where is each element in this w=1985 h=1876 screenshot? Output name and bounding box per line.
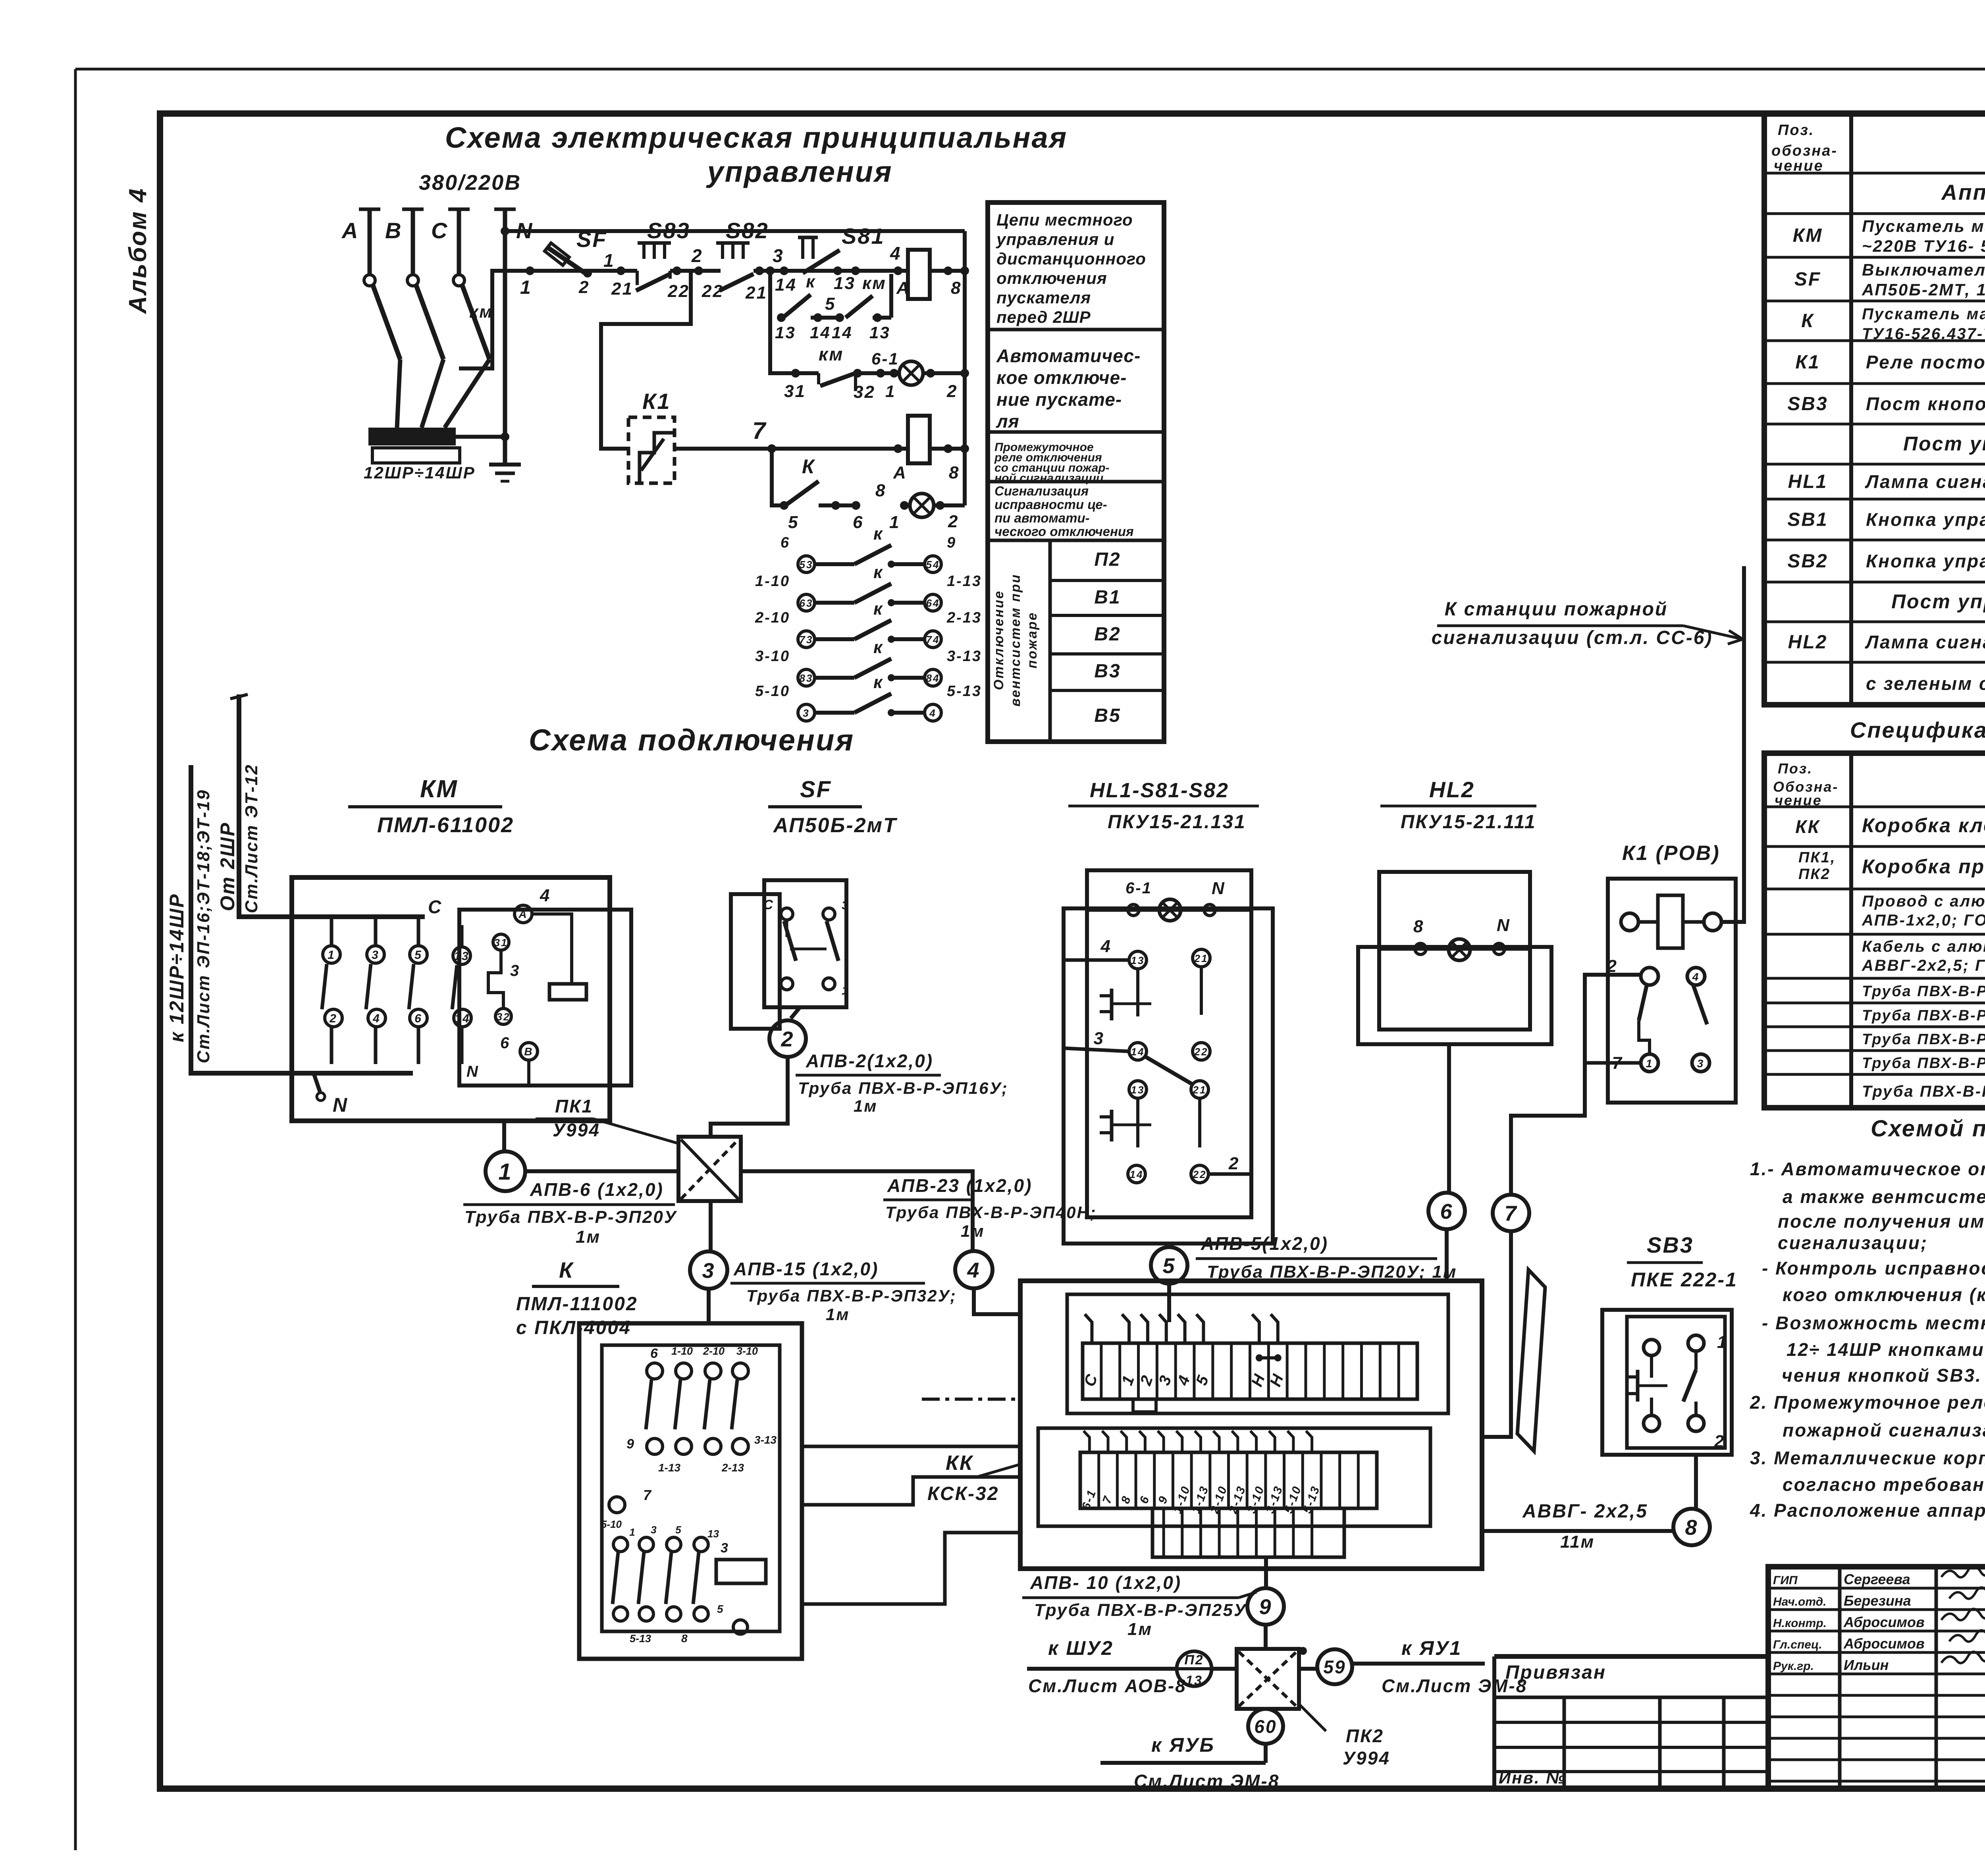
svg-text:Труба ПВХ-В-Р-ЭП32У;: Труба ПВХ-В-Р-ЭП32У; [746,1286,957,1305]
svg-text:6-1: 6-1 [871,349,899,368]
svg-text:Схема подключения: Схема подключения [529,723,854,757]
svg-text:КК: КК [1795,816,1820,837]
svg-text:Выключатель автоматический: Выключатель автоматический [1862,260,1985,279]
svg-text:5: 5 [825,294,836,314]
svg-text:чение: чение [1774,158,1824,174]
svg-text:6: 6 [414,1012,422,1025]
svg-text:Труба ПВХ-В-Р-ЭП16У, ТУ6- 19-2: Труба ПВХ-В-Р-ЭП16У, ТУ6- 19-215-83 [1862,983,1985,1000]
svg-text:8: 8 [1685,1515,1698,1539]
svg-text:К1: К1 [1795,352,1820,373]
svg-text:4: 4 [540,886,551,905]
svg-text:к: к [873,524,883,544]
svg-text:13: 13 [454,950,469,963]
svg-text:1: 1 [1646,1057,1654,1070]
svg-text:Кнопка управления КЕ011У3,: Кнопка управления КЕ011У3, исп. 2 [1866,509,1985,530]
svg-text:SB3: SB3 [1787,393,1828,415]
svg-text:Автоматичес-: Автоматичес- [996,345,1141,366]
svg-text:Поз.: Поз. [1778,760,1813,777]
svg-text:КСК-32: КСК-32 [927,1483,999,1504]
svg-text:21: 21 [1194,952,1208,964]
svg-text:А: А [893,463,907,482]
svg-text:- Возможность местного управ: - Возможность местного управления пускат… [1762,1313,1985,1333]
svg-text:13: 13 [707,1528,719,1540]
svg-text:В: В [385,218,402,243]
svg-text:8: 8 [875,481,886,500]
svg-text:Лампа сигнальная АС-220: Лампа сигнальная АС-220 [1865,471,1985,492]
svg-text:31: 31 [494,937,508,949]
svg-text:21: 21 [745,283,767,303]
svg-text:В5: В5 [1094,705,1121,726]
svg-text:ПК2: ПК2 [1798,866,1831,883]
svg-text:3: 3 [721,1541,729,1556]
svg-text:1: 1 [328,949,335,962]
svg-text:1-13: 1-13 [947,573,982,590]
svg-text:13: 13 [834,274,856,293]
svg-text:HL1: HL1 [1788,471,1828,492]
svg-text:А: А [341,218,359,243]
svg-text:1: 1 [603,250,615,271]
svg-text:5-10: 5-10 [601,1518,622,1530]
svg-text:2: 2 [691,245,703,266]
svg-text:Схема электрическая принципи: Схема электрическая принципиальная [445,121,1068,154]
svg-text:после получения импульса о: после получения импульса о пожаре со ста… [1778,1211,1985,1232]
svg-text:Труба ПВХ-В-Р-ЭП40Н, ТУ6- 19-: Труба ПВХ-В-Р-ЭП40Н, ТУ6- 19- 215- 83 [1862,1083,1985,1100]
svg-text:вентсистем при: вентсистем при [1008,573,1023,706]
svg-text:согласно требованиям ПУЭ.: согласно требованиям ПУЭ. [1783,1474,1985,1495]
svg-text:2: 2 [781,1027,794,1051]
svg-text:ной сигнализации: ной сигнализации [994,472,1103,485]
svg-text:2. Промежуточное реле К1(РОВ: 2. Промежуточное реле К1(РОВ) выбирается… [1750,1392,1985,1413]
svg-text:ГИП: ГИП [1773,1574,1798,1587]
svg-text:АВВГ- 2х2,5: АВВГ- 2х2,5 [1522,1501,1648,1522]
svg-text:2: 2 [1228,1154,1239,1173]
svg-text:Поз.: Поз. [1778,122,1815,139]
svg-text:Спецификация на монтажные: Спецификация на монтажные материалы [1850,717,1985,742]
svg-text:перед 2ШР: перед 2ШР [996,308,1091,326]
svg-text:Рук.гр.: Рук.гр. [1773,1660,1814,1673]
svg-text:8: 8 [949,463,960,482]
svg-text:Березина: Березина [1844,1593,1911,1609]
svg-text:Абросимов: Абросимов [1843,1614,1925,1630]
svg-text:2-10: 2-10 [703,1345,725,1357]
svg-text:В2: В2 [1094,624,1121,645]
svg-text:км: км [862,274,887,293]
svg-text:Инв. №: Инв. № [1499,1768,1566,1787]
svg-text:3-13: 3-13 [947,648,982,665]
svg-text:5: 5 [717,1603,725,1615]
svg-text:ПМЛ-611002: ПМЛ-611002 [377,813,514,837]
svg-text:а также вентсистем, питаемых: а также вентсистем, питаемых от 12ШР, 13… [1783,1186,1985,1207]
svg-text:7: 7 [1504,1201,1517,1225]
svg-text:П2: П2 [1094,549,1121,570]
svg-text:Абросимов: Абросимов [1843,1635,1925,1652]
svg-text:КК: КК [946,1452,973,1475]
svg-text:S83: S83 [647,218,690,243]
svg-text:SF: SF [1794,269,1821,290]
svg-text:2-13: 2-13 [721,1461,744,1474]
svg-text:6: 6 [781,534,790,551]
svg-text:5: 5 [788,513,799,532]
svg-text:13: 13 [1185,1673,1203,1688]
svg-text:2: 2 [946,382,958,401]
svg-text:ПК2: ПК2 [1346,1726,1384,1746]
svg-text:чения кнопкой SB3.: чения кнопкой SB3. [1782,1365,1982,1386]
svg-text:Отключение: Отключение [991,590,1006,690]
svg-text:Труба ПВХ-В-Р-ЭП20У, ТУ6- 19-: Труба ПВХ-В-Р-ЭП20У, ТУ6- 19- 215- 83 [1862,1007,1985,1024]
svg-text:исправности це-: исправности це- [994,497,1107,512]
svg-text:См.Лист ЭМ-8: См.Лист ЭМ-8 [1134,1771,1280,1791]
svg-text:АП50Б-2МТ, 1,6х3,5 , ТУ16-52: АП50Б-2МТ, 1,6х3,5 , ТУ16-522.139-78 [1862,280,1985,299]
svg-text:В3: В3 [1094,661,1121,682]
svg-text:Сергеева: Сергеева [1844,1571,1910,1587]
svg-text:6-1: 6-1 [1125,879,1152,897]
svg-text:Пускатель магнитный ПМЛ-6110: Пускатель магнитный ПМЛ-611002, [1862,217,1985,235]
svg-text:Ильин: Ильин [1844,1657,1889,1673]
svg-text:Коробка клеммная КСК-32: Коробка клеммная КСК-32 [1862,814,1985,837]
svg-text:К1 (РОВ): К1 (РОВ) [1622,842,1720,865]
svg-text:1-13: 1-13 [658,1461,680,1474]
svg-text:К: К [559,1257,574,1282]
svg-text:дистанционного: дистанционного [996,249,1146,268]
svg-text:Лампа сигнальная АС-220: Лампа сигнальная АС-220 [1865,632,1985,652]
svg-text:1: 1 [520,277,532,298]
svg-text:9: 9 [947,534,956,551]
svg-text:Провод с алюминиевой жилой: Провод с алюминиевой жилой [1862,893,1985,910]
svg-text:Пускатель магнитный ПМЛ-111002: Пускатель магнитный ПМЛ-111002, ~220В [1862,305,1985,323]
svg-text:Труба ПВХ-В-Р-ЭП25У, ТУ6- 19 -: Труба ПВХ-В-Р-ЭП25У, ТУ6- 19 - 215- 83 [1862,1031,1985,1048]
svg-text:3: 3 [372,949,380,962]
svg-text:54: 54 [926,559,940,571]
svg-text:64: 64 [926,597,940,609]
svg-text:13: 13 [869,323,890,342]
svg-text:Н.контр.: Н.контр. [1773,1617,1827,1630]
svg-text:С: С [763,897,774,912]
svg-text:3-10: 3-10 [755,648,790,665]
svg-text:1м: 1м [826,1305,850,1324]
svg-text:1: 1 [629,1526,636,1538]
svg-text:чение: чение [1775,792,1822,808]
svg-text:КМ: КМ [1793,225,1823,246]
svg-text:9: 9 [1259,1595,1272,1619]
svg-text:управления и: управления и [996,230,1114,249]
svg-text:HL2: HL2 [1429,777,1475,802]
svg-text:пускателя: пускателя [996,288,1091,307]
svg-text:ПК1,: ПК1, [1798,849,1836,866]
svg-text:к ЯУБ: к ЯУБ [1151,1734,1215,1756]
svg-text:ПКЕ 222-1: ПКЕ 222-1 [1631,1269,1738,1291]
svg-text:22: 22 [667,281,690,301]
svg-text:12ШР÷14ШР: 12ШР÷14ШР [364,463,476,482]
svg-text:Коробка протяжная У994: Коробка протяжная У994 [1862,856,1985,878]
svg-text:~220В ТУ16- 526.437-78: ~220В ТУ16- 526.437-78 [1862,237,1985,255]
svg-text:4: 4 [1100,937,1112,956]
svg-text:КМ: КМ [420,775,458,803]
svg-text:3: 3 [803,707,809,719]
svg-text:См.Лист АОВ-8: См.Лист АОВ-8 [1028,1675,1187,1696]
svg-text:HL1-S81-S82: HL1-S81-S82 [1090,779,1229,802]
svg-text:пожаре: пожаре [1025,611,1040,668]
svg-text:Цепи местного: Цепи местного [996,210,1133,229]
svg-text:1: 1 [498,1159,512,1185]
svg-text:1: 1 [842,984,850,997]
svg-text:7: 7 [643,1487,652,1503]
svg-text:Сигнализация: Сигнализация [994,484,1089,498]
svg-text:3: 3 [1094,1029,1104,1048]
svg-text:1: 1 [889,513,900,532]
svg-text:21: 21 [1193,1084,1207,1096]
svg-text:к 12ШР÷14ШР: к 12ШР÷14ШР [166,893,188,1042]
svg-text:14: 14 [1130,1168,1144,1180]
svg-text:АП50Б-2мТ: АП50Б-2мТ [773,814,898,837]
svg-text:Труба ПВХ-В-Р-ЭП25У: Труба ПВХ-В-Р-ЭП25У [1034,1600,1247,1620]
svg-text:2-13: 2-13 [946,609,982,626]
svg-text:АВВГ-2х2,5; ГОСТ 16442-80*: АВВГ-2х2,5; ГОСТ 16442-80* [1862,957,1985,974]
svg-text:км: км [819,344,844,364]
svg-text:1м: 1м [1127,1620,1152,1639]
svg-text:А: А [518,908,528,920]
svg-text:кое отключе-: кое отключе- [996,367,1127,388]
svg-text:Труба ПВХ-В-Р-ЭП20У: Труба ПВХ-В-Р-ЭП20У [464,1207,677,1227]
svg-text:У994: У994 [553,1120,600,1140]
svg-text:S81: S81 [842,224,885,249]
svg-text:6: 6 [500,1034,510,1052]
svg-text:с ПКЛ-4004: с ПКЛ-4004 [516,1317,631,1338]
svg-text:К станции пожарной: К станции пожарной [1445,599,1668,620]
svg-text:к ЯУ1: к ЯУ1 [1401,1637,1462,1659]
svg-text:Нач.отд.: Нач.отд. [1773,1595,1827,1608]
svg-text:13: 13 [1131,954,1145,966]
svg-text:32: 32 [854,382,875,402]
svg-text:4: 4 [967,1258,980,1282]
svg-text:ля: ля [996,411,1019,432]
svg-text:3: 3 [773,245,784,266]
svg-text:14: 14 [832,323,853,342]
svg-text:сигнализации (ст.л. СС-6): сигнализации (ст.л. СС-6) [1432,627,1713,648]
svg-text:Альбом 4: Альбом 4 [124,187,152,314]
svg-text:1-10: 1-10 [671,1345,693,1357]
svg-text:2-10: 2-10 [755,609,790,626]
svg-text:S82: S82 [726,218,769,243]
svg-text:Ст.Лист ЭП-16;ЭТ-18;ЭТ-19: Ст.Лист ЭП-16;ЭТ-18;ЭТ-19 [194,789,213,1063]
svg-text:Привязан: Привязан [1505,1662,1606,1683]
svg-text:5-13: 5-13 [947,683,982,700]
svg-text:13: 13 [1131,1084,1145,1096]
svg-text:5: 5 [1162,1254,1176,1278]
svg-text:4: 4 [890,243,902,264]
svg-text:с зеленым светофильтром: с зеленым светофильтром [1866,673,1985,694]
svg-text:60: 60 [1254,1716,1277,1737]
svg-text:32: 32 [497,1011,511,1023]
svg-text:От 2ШР: От 2ШР [216,822,239,911]
svg-text:ТУ16-526.437-78 с приставкой: ТУ16-526.437-78 с приставкой ПКЛ-4004 [1862,325,1985,343]
svg-text:К1: К1 [642,389,671,414]
svg-text:Кабель с алюминиевыми жилами: Кабель с алюминиевыми жилами [1862,938,1985,955]
svg-text:74: 74 [926,634,940,646]
svg-text:ПК1: ПК1 [555,1096,593,1116]
svg-text:Пост управления ПКУ15-21.131: Пост управления ПКУ15-21.131 [1903,433,1985,455]
svg-text:к: к [873,563,883,582]
svg-text:3: 3 [510,962,520,979]
svg-text:4: 4 [929,707,936,719]
svg-text:5: 5 [675,1524,682,1536]
svg-text:2: 2 [329,1012,337,1025]
svg-text:14: 14 [810,323,831,342]
svg-text:SF: SF [576,227,607,252]
svg-text:SB1: SB1 [1787,509,1828,530]
svg-text:ПКУ15-21.131: ПКУ15-21.131 [1108,812,1246,833]
svg-text:Пост управления ПКУ 15 - 21: Пост управления ПКУ 15 - 21. 111 [1891,590,1985,613]
svg-text:пи автомати-: пи автомати- [994,511,1090,525]
svg-text:8: 8 [951,278,962,298]
svg-text:к: к [806,272,816,291]
svg-text:13: 13 [775,323,796,342]
svg-text:к: к [873,599,883,619]
svg-text:53: 53 [800,559,813,571]
svg-text:3: 3 [702,1259,715,1282]
svg-text:У994: У994 [1343,1748,1390,1768]
svg-text:SB2: SB2 [1787,551,1828,572]
svg-text:31: 31 [784,382,806,401]
svg-text:8: 8 [1413,917,1424,936]
svg-text:Реле постоянного тока 24В: Реле постоянного тока 24В [1866,352,1985,372]
svg-text:84: 84 [926,672,940,684]
svg-text:4. Расположение аппаратуры с: 4. Расположение аппаратуры см. на листе … [1750,1500,1985,1521]
svg-text:59: 59 [1323,1657,1346,1677]
svg-text:АПВ-23 (1х2,0): АПВ-23 (1х2,0) [887,1175,1032,1196]
svg-text:АПВ-2(1х2,0): АПВ-2(1х2,0) [806,1051,933,1071]
svg-text:К: К [1801,310,1814,332]
svg-text:N: N [1212,879,1226,898]
svg-text:ческого отключения: ческого отключения [994,524,1134,539]
svg-text:6: 6 [1440,1199,1453,1223]
svg-text:5: 5 [414,949,422,962]
svg-text:5-10: 5-10 [755,683,790,700]
svg-text:9: 9 [626,1436,635,1452]
svg-text:2: 2 [1607,956,1618,976]
svg-text:3-13: 3-13 [754,1434,777,1446]
svg-text:пожарной сигнализации (см.: пожарной сигнализации (см. лист СС-5). [1783,1420,1985,1440]
svg-text:7: 7 [752,417,767,444]
svg-text:отключения: отключения [996,269,1107,287]
svg-text:Труба ПВХ-В-Р-ЭП32У, ТУ6- 19-: Труба ПВХ-В-Р-ЭП32У, ТУ6- 19- 215- 83 [1862,1055,1985,1072]
svg-text:73: 73 [800,634,813,646]
svg-text:14: 14 [775,275,797,295]
svg-text:АПВ- 10 (1х2,0): АПВ- 10 (1х2,0) [1030,1572,1181,1593]
svg-text:3: 3 [651,1524,657,1536]
svg-text:Труба ПВХ-В-Р-ЭП16У;: Труба ПВХ-В-Р-ЭП16У; [798,1079,1008,1097]
svg-text:63: 63 [800,597,813,609]
svg-text:Гл.спец.: Гл.спец. [1773,1638,1822,1651]
svg-text:22: 22 [1194,1046,1208,1058]
svg-text:1: 1 [885,382,896,401]
svg-text:3. Металлические корпуса эле: 3. Металлические корпуса электроаппарату… [1750,1448,1985,1468]
svg-text:1м: 1м [854,1097,877,1115]
svg-text:1.- Автоматическое отключение: 1.- Автоматическое отключение вентсистем… [1750,1159,1985,1179]
svg-text:кого отключения (кабель ⑦).: кого отключения (кабель ⑦). [1783,1284,1985,1305]
svg-text:14: 14 [1131,1046,1145,1058]
svg-text:ние пускате-: ние пускате- [996,389,1122,410]
svg-text:1м: 1м [961,1222,985,1240]
svg-text:АПВ-15 (1х2,0): АПВ-15 (1х2,0) [733,1259,879,1279]
svg-text:Схемой предусмотрено:: Схемой предусмотрено: [1871,1116,1985,1141]
svg-text:С: С [431,218,448,243]
svg-text:К: К [802,455,815,478]
svg-text:обозна-: обозна- [1771,143,1838,159]
svg-text:ПКУ15-21.111: ПКУ15-21.111 [1401,812,1536,833]
svg-text:Аппаратура по месту: Аппаратура по месту [1941,180,1985,204]
svg-text:Ст.Лист ЭТ-12: Ст.Лист ЭТ-12 [242,764,261,913]
svg-text:N: N [1497,916,1511,935]
svg-text:HL2: HL2 [1788,632,1828,653]
svg-text:Кнопка управления КЕО 11У3,: Кнопка управления КЕО 11У3, исп. 2 [1866,551,1985,571]
svg-text:4: 4 [372,1012,381,1025]
svg-text:сигнализации;: сигнализации; [1778,1232,1928,1253]
svg-text:к ШУ2: к ШУ2 [1048,1637,1114,1659]
svg-text:3: 3 [1697,1057,1705,1070]
svg-text:В: В [524,1045,533,1058]
svg-text:380/220В: 380/220В [419,171,521,195]
svg-text:2: 2 [1714,1432,1725,1451]
svg-text:ПМЛ-111002: ПМЛ-111002 [516,1294,638,1315]
svg-text:С: С [428,897,442,917]
svg-text:N: N [466,1063,479,1080]
svg-text:к: к [873,673,883,692]
svg-text:4: 4 [1692,971,1700,983]
svg-text:8: 8 [681,1632,689,1645]
svg-text:21: 21 [611,279,633,299]
svg-text:1-10: 1-10 [755,573,790,590]
svg-text:П2: П2 [1184,1652,1204,1668]
svg-text:11м: 11м [1560,1532,1595,1552]
svg-text:83: 83 [800,672,813,684]
svg-text:В1: В1 [1094,587,1121,608]
svg-text:6: 6 [853,513,863,532]
svg-text:управления: управления [705,155,892,188]
svg-text:2: 2 [578,278,590,297]
svg-text:АПВ-1х2,0; ГОСТ 6323- 79: АПВ-1х2,0; ГОСТ 6323- 79 [1862,912,1985,929]
svg-text:N: N [333,1094,348,1116]
svg-text:SF: SF [800,777,832,802]
svg-text:1: 1 [1717,1332,1728,1352]
svg-text:12÷ 14ШР кнопками SB1, SB2: 12÷ 14ШР кнопками SB1, SB2 и дистанционн… [1786,1339,1985,1360]
svg-text:3-10: 3-10 [736,1345,758,1357]
svg-text:14: 14 [455,1012,470,1025]
svg-text:1м: 1м [576,1227,601,1247]
svg-text:3: 3 [842,899,850,912]
svg-text:5-13: 5-13 [630,1633,651,1645]
svg-text:2: 2 [948,512,959,531]
svg-text:АПВ-5(1х2,0): АПВ-5(1х2,0) [1201,1233,1328,1254]
svg-text:Пост кнопочный ПКЕ 222-1: Пост кнопочный ПКЕ 222-1 [1866,393,1985,414]
svg-text:22: 22 [1193,1168,1207,1180]
svg-text:к: к [873,638,883,657]
svg-text:SB3: SB3 [1647,1232,1694,1257]
svg-text:км: км [469,302,493,322]
svg-text:АПВ-6 (1х2,0): АПВ-6 (1х2,0) [530,1179,664,1200]
svg-text:- Контроль исправности (на: - Контроль исправности (на обрыв) цепи а… [1762,1258,1985,1278]
svg-text:6: 6 [650,1346,659,1361]
